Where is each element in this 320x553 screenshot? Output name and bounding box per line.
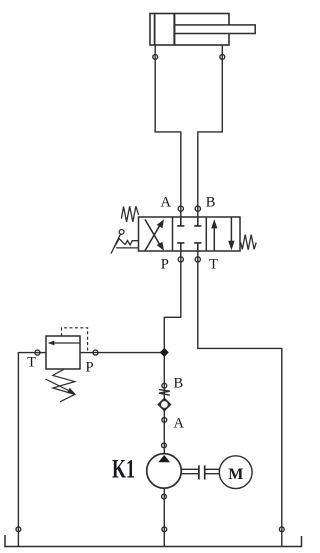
tank reservoir [5, 535, 302, 547]
relief valve RV1 body [46, 336, 80, 369]
wire pump outlet down to tank [163, 488, 165, 546]
coupling bar left [198, 465, 200, 479]
valve left box crossed arrow up [145, 225, 160, 250]
pump K1 circle [147, 454, 182, 489]
wire cylinder left port to valve port A [155, 45, 181, 217]
shaft pump to coupling [181, 469, 198, 473]
pump port circle top [162, 443, 167, 448]
valve center box blocked port P [177, 243, 184, 251]
cylinder C1 barrel [150, 14, 229, 46]
check valve port circle A [162, 418, 167, 423]
coupling bar right [204, 465, 206, 479]
valve center box blocked port A [177, 217, 184, 226]
pump flow triangle [158, 455, 170, 462]
motor M circle [219, 456, 252, 489]
check valve seat diamond [157, 397, 171, 411]
relief valve pilot line dashed [62, 328, 88, 351]
junction node [160, 348, 169, 357]
relief valve port circle T [35, 350, 40, 355]
cylinder port circle left [153, 55, 158, 60]
svg-text:M: M [228, 466, 243, 483]
wire valve P port down to junction [164, 251, 181, 352]
tank port circle middle [162, 527, 167, 532]
shaft coupling to motor [205, 469, 219, 473]
svg-text:T: T [209, 256, 218, 272]
valve V1 box divider right [205, 217, 207, 251]
tank port circle right [279, 527, 284, 532]
relief valve port circle P [93, 350, 98, 355]
svg-text:B: B [206, 195, 216, 211]
valve right box arrow down [230, 217, 232, 242]
valve port circle T [195, 257, 200, 262]
valve left box crossed arrow down [145, 219, 160, 244]
svg-text:B: B [173, 375, 183, 391]
valve lever linkage peak [114, 239, 125, 248]
svg-text:P: P [161, 257, 169, 273]
svg-text:A: A [173, 416, 184, 432]
valve center box blocked port T [194, 243, 201, 251]
svg-text:T: T [27, 354, 36, 370]
valve port circle B [195, 206, 200, 211]
check valve ball [160, 400, 168, 408]
check valve port circle B [162, 383, 167, 388]
wire relief valve P side to junction [80, 352, 164, 354]
valve V1 box divider left [172, 217, 174, 251]
wire cylinder right port to valve port B [198, 45, 223, 217]
relief valve flow arrow [54, 342, 80, 344]
pump port circle bottom [162, 494, 167, 499]
valve port circle A [178, 206, 183, 211]
check valve spring [159, 390, 170, 396]
tank port circle left [16, 527, 21, 532]
valve spring right [241, 235, 257, 250]
cylinder port circle right [220, 55, 225, 60]
valve right box arrow up [213, 226, 215, 251]
valve port circle P [178, 257, 183, 262]
wire valve T port down and right to tank [198, 251, 282, 547]
valve center box blocked port B [194, 217, 201, 226]
valve spring left [121, 206, 138, 222]
relief valve adjustment arrow [46, 379, 69, 391]
valve lever arm [111, 234, 121, 254]
wire relief valve T side to tank riser [18, 353, 46, 547]
cylinder C1 piston rod [174, 25, 255, 34]
wire junction down through check valve to pump [163, 352, 165, 453]
svg-text:P: P [85, 359, 93, 375]
valve lever knob [119, 230, 124, 235]
valve V1 body [139, 217, 241, 251]
valve lever base link [116, 247, 138, 249]
valve lever linkage notch [125, 241, 139, 246]
cylinder C1 piston right line [173, 14, 175, 44]
svg-text:K1: K1 [112, 454, 135, 484]
cylinder C1 piston left line [154, 14, 156, 44]
relief valve spring [53, 369, 75, 402]
svg-text:A: A [160, 195, 171, 211]
